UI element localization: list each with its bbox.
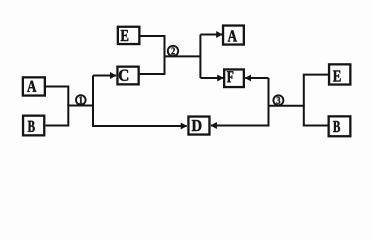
label A right — [228, 30, 237, 41]
digit 2 — [171, 47, 174, 54]
digit 1 — [79, 96, 82, 103]
wire vertical split C/D — [92, 76, 94, 127]
wire junction 3 horizontal — [268, 105, 305, 107]
label A left — [27, 81, 36, 92]
wire arrow into F left — [200, 77, 223, 79]
box A left — [23, 77, 45, 95]
wire arrow into A right — [200, 34, 222, 36]
label E top — [121, 30, 129, 41]
circle junction 1 — [76, 95, 86, 105]
label E right — [333, 71, 341, 82]
box E right — [329, 64, 350, 84]
label F — [227, 71, 233, 82]
wire arrow into C — [93, 75, 116, 77]
wire E-right to junction 3 — [304, 75, 329, 127]
wire arrow into D right — [211, 125, 270, 127]
box A right — [223, 26, 244, 45]
box D — [188, 117, 209, 135]
label B right — [333, 121, 340, 132]
wire E-top to junction 2 — [139, 36, 165, 57]
wire junction 2 trunk — [164, 55, 201, 57]
wire B-right to junction 3 — [303, 125, 329, 127]
box B right — [329, 116, 351, 136]
label B left — [28, 121, 35, 132]
circle junction 2 — [168, 46, 178, 56]
box E top — [118, 27, 140, 44]
box F — [224, 69, 244, 87]
wire C out to junction 2 — [139, 56, 165, 74]
wire to D from left — [92, 125, 187, 127]
box C — [117, 67, 138, 85]
wire A-left to junction 1 — [46, 87, 68, 106]
label C — [119, 70, 128, 81]
wire B-left to junction 1 — [46, 105, 69, 126]
wire vertical F/D feed — [268, 78, 270, 126]
wire junction 1 horizontal — [67, 105, 94, 107]
digit 3 — [277, 97, 281, 104]
box B left — [23, 116, 44, 136]
wire vertical split A/F — [199, 35, 201, 79]
label D — [192, 120, 202, 131]
wire arrow into F right — [245, 77, 268, 79]
circle junction 3 — [273, 95, 283, 105]
